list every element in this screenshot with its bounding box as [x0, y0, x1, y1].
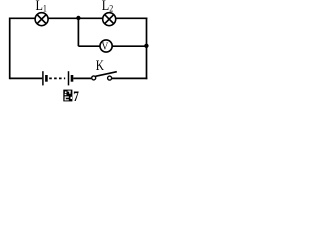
voltmeter V1	[100, 40, 112, 53]
svg-text:L2: L2	[102, 0, 113, 13]
wire node A to lamp L2	[78, 17, 102, 19]
wire lamp L1 to node A	[48, 17, 78, 19]
lamp L2	[103, 13, 116, 26]
battery GB cell 2 short plate	[71, 75, 74, 82]
caption figure glyph (tu)	[63, 90, 72, 102]
svg-text:7: 7	[73, 88, 79, 105]
wire lamp L2 to top-right corner	[116, 17, 148, 19]
svg-text:K: K	[96, 56, 105, 73]
wire bottom-left to battery	[10, 77, 43, 79]
wire switch to bottom-right corner	[112, 77, 148, 79]
battery dashed link	[49, 77, 65, 79]
svg-text:V: V	[102, 41, 109, 53]
wire node A down to voltmeter branch	[77, 18, 79, 46]
switch K left contact	[92, 76, 96, 80]
node A (junction dot)	[76, 16, 80, 20]
wire top-left to lamp L1	[10, 17, 36, 19]
wire right side down (top corner to node B)	[146, 18, 148, 47]
battery GB cell 1 long plate	[42, 71, 44, 85]
wire right side down (node B to bottom corner)	[146, 46, 148, 79]
switch K lever	[95, 72, 116, 77]
wire voltmeter to node B	[112, 45, 146, 47]
wire battery to switch	[73, 77, 91, 79]
svg-text:L1: L1	[36, 0, 47, 13]
wire left side down	[9, 18, 11, 80]
switch K right contact	[108, 76, 112, 80]
node B (junction dot)	[144, 44, 148, 48]
lamp L1	[35, 13, 48, 26]
wire voltmeter branch left	[78, 45, 100, 47]
battery GB cell 2 long plate	[68, 71, 70, 85]
battery GB cell 1 short plate	[45, 75, 48, 82]
